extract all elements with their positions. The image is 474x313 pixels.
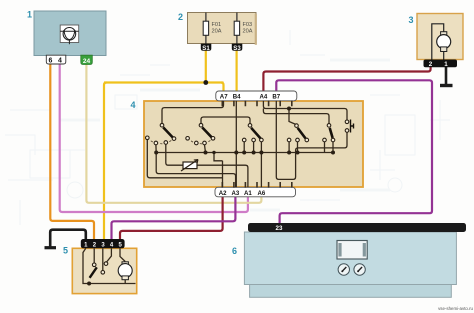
wire pin B4 down to bus	[235, 101, 237, 188]
ground: switch5	[45, 246, 57, 249]
wire: yellow from fuse S3 down to B4	[236, 51, 238, 93]
contact pin2	[92, 263, 96, 267]
contact SW4 a	[287, 138, 291, 142]
switch S4 box	[144, 101, 363, 187]
svg-text:23: 23	[276, 225, 283, 232]
node bus jog	[212, 151, 215, 154]
contact SW1 pivot	[160, 123, 164, 127]
svg-text:A6: A6	[258, 190, 266, 197]
node bus B4	[234, 151, 238, 155]
wire sw1 contact drop	[155, 145, 157, 153]
contact SW5 b	[331, 138, 335, 142]
resistor R1 rheostat	[181, 160, 198, 172]
svg-text:A7: A7	[220, 94, 228, 101]
unit U1 box	[27, 10, 106, 56]
wire: dark red from motor3 pin2 to A4	[263, 67, 430, 92]
switch lever SW1	[163, 127, 173, 137]
wire pin 3 to contact	[102, 248, 104, 270]
motor M5 washer pump	[122, 262, 128, 266]
wire: violet from B7 to unit6 pin23	[276, 80, 432, 224]
switch lever SW5	[330, 128, 333, 138]
svg-text:2: 2	[178, 12, 183, 22]
node lever pivot	[87, 282, 91, 286]
contact SW3 c	[260, 138, 264, 142]
wire pin A7 to lever1 pivot	[162, 101, 224, 124]
node bus left end	[154, 151, 158, 155]
svg-text:6: 6	[232, 246, 237, 256]
wire: yellow horizontal junction bus	[104, 81, 224, 83]
wire pin 5 to motor	[120, 248, 125, 261]
wire bus jog to pin A2	[214, 153, 223, 188]
svg-text:vse-shemi-avto.ru: vse-shemi-avto.ru	[438, 306, 473, 311]
wire: violet from A3 to switch5 pin4	[112, 197, 236, 240]
switch lever SW2	[202, 127, 212, 137]
connector teeth top tab	[222, 101, 291, 107]
faint ghost schematic background	[5, 30, 450, 225]
wire: cream from unit1 pin24 to A6	[86, 64, 261, 203]
contact pin3	[101, 271, 105, 275]
connector teeth bottom tab	[222, 182, 291, 188]
node bus sw4 b	[296, 151, 300, 155]
contact SW1 a	[146, 136, 150, 140]
contact arc dashes sw2	[191, 141, 210, 144]
fusebox body	[188, 13, 257, 44]
pin tag S1	[201, 44, 212, 51]
svg-text:1: 1	[444, 61, 448, 68]
contact SW1 c	[164, 141, 168, 145]
wire: black ground wire of switch5 pin1	[50, 230, 86, 247]
fuse F03	[236, 13, 238, 45]
wire sw5 contact drop a	[324, 142, 326, 153]
wire: dark red from A2 to switch5 pin5	[120, 197, 223, 240]
svg-text:2: 2	[429, 61, 433, 68]
wire resistor right lead to pin A1	[197, 165, 248, 187]
wire bus left end to pin A3	[156, 153, 235, 188]
wire pin 2 to contact	[93, 248, 95, 263]
wire pin A4 to push contact top	[263, 101, 347, 121]
connector bar pins 1-5	[81, 239, 125, 248]
node: yellow junction dot	[203, 80, 208, 85]
contact pin4	[104, 262, 108, 266]
wire lever2 pivot to lever3 pivot	[201, 117, 250, 124]
contact SW2 d	[211, 137, 215, 141]
wire sw4 contact drop b	[297, 142, 299, 153]
wire: yellow left branch down to switch 5 pin 3	[104, 83, 107, 241]
svg-text:20A: 20A	[212, 29, 222, 35]
wire: orange from unit1 pin6 to switch5 pin2	[50, 64, 94, 241]
svg-text:A2: A2	[219, 190, 227, 197]
contact SW2 a	[186, 137, 190, 141]
contact SW2 pivot	[199, 123, 203, 127]
svg-text:24: 24	[83, 58, 91, 65]
wire sw1 left contact staircase to pin A2	[147, 140, 222, 178]
wire sw1 contact to resistor left lead	[166, 144, 183, 165]
contact SW4 b	[296, 138, 300, 142]
node bus A6	[259, 151, 263, 155]
pin tag 6 4	[46, 55, 66, 64]
contact SW5 pivot	[327, 124, 331, 128]
contact SW5 a	[323, 138, 327, 142]
wire sw3 contact drop a	[243, 142, 245, 153]
contact SW4 c	[305, 138, 309, 142]
contact SW3 a	[242, 138, 246, 142]
connector bar 23	[248, 223, 466, 232]
contact SW3 pivot	[248, 124, 252, 128]
svg-text:F01: F01	[212, 22, 222, 28]
node bus sw3 b	[252, 151, 256, 155]
contact SW2 b	[195, 141, 199, 145]
wire: black ground of motor3 pin1	[445, 67, 448, 85]
gauge G1	[338, 264, 349, 275]
wire motor to bottom rail	[124, 280, 126, 284]
wire sw4 contact drop a	[288, 142, 290, 153]
contact SW4 pivot	[295, 124, 299, 128]
svg-text:A1: A1	[244, 190, 252, 197]
wire pin B7 to push contact bottom	[276, 101, 347, 180]
svg-text:6: 6	[48, 58, 52, 65]
wire: pink from unit1 pin4 to A1	[60, 64, 248, 213]
wire branch to lever5 pivot	[263, 109, 329, 125]
switch lever SW3	[251, 128, 261, 139]
wire sw5 contact drop b	[332, 142, 334, 153]
svg-text:A3: A3	[232, 190, 240, 197]
wire node branch to lever4 pivot	[289, 109, 296, 125]
svg-text:5: 5	[63, 246, 68, 256]
ground: motor3	[440, 84, 453, 87]
contact SW3 b	[252, 138, 256, 142]
node bus sw5	[331, 151, 335, 155]
svg-text:3: 3	[409, 15, 414, 25]
svg-text:20A: 20A	[243, 29, 253, 35]
pin tag 2 1	[424, 60, 458, 68]
svg-text:4: 4	[58, 58, 62, 65]
push button actuator	[351, 120, 354, 133]
motor M3 internal wiring	[432, 24, 444, 60]
wire: yellow from fuse S1 down to junction	[205, 51, 207, 83]
cluster box	[244, 232, 456, 285]
node bus sw2	[204, 151, 208, 155]
pump symbol inside U1	[60, 25, 78, 43]
cluster bottom strip	[250, 285, 452, 298]
svg-text:4: 4	[131, 100, 136, 110]
wire: yellow right branch down to A7	[221, 83, 224, 93]
switch S5 box	[72, 248, 136, 293]
gauge G2	[354, 264, 365, 275]
svg-text:B4: B4	[233, 94, 241, 101]
svg-text:1: 1	[27, 10, 32, 20]
contact push-button top	[345, 120, 349, 124]
wire pin 4 to contact	[107, 248, 112, 262]
node on A4 feed line	[287, 107, 291, 111]
wire sw3 contact drop b	[253, 142, 255, 153]
contact push-button bottom	[345, 129, 349, 133]
contact SW1 b	[154, 141, 158, 145]
svg-text:B7: B7	[272, 94, 280, 101]
wire pin 1 to bottom rail	[83, 248, 136, 283]
switch lever SW4	[298, 128, 306, 138]
bottom connector tab A2 A3 A1 A6	[215, 187, 296, 197]
svg-text:S1: S1	[202, 45, 210, 52]
wire sw3 contact through bus to pin A6	[260, 142, 262, 188]
fuse F01	[205, 13, 207, 45]
contact SW2 c	[203, 141, 207, 145]
pin tag S3	[232, 44, 243, 51]
top connector tab A7 B4 A4 B7	[216, 91, 297, 101]
display window	[337, 241, 367, 260]
contact arc dashes sw1	[151, 141, 172, 144]
node bus sw3 a	[242, 151, 246, 155]
svg-text:A4: A4	[260, 94, 268, 101]
node bus sw4 a	[287, 151, 291, 155]
pin tag 24	[81, 55, 93, 65]
wire sw2 contact drop	[205, 145, 206, 153]
svg-text:F03: F03	[243, 22, 253, 28]
contact SW1 d	[172, 137, 176, 141]
svg-text:S3: S3	[233, 45, 241, 52]
switch lever S5	[90, 267, 97, 278]
wire common bus	[156, 152, 333, 154]
